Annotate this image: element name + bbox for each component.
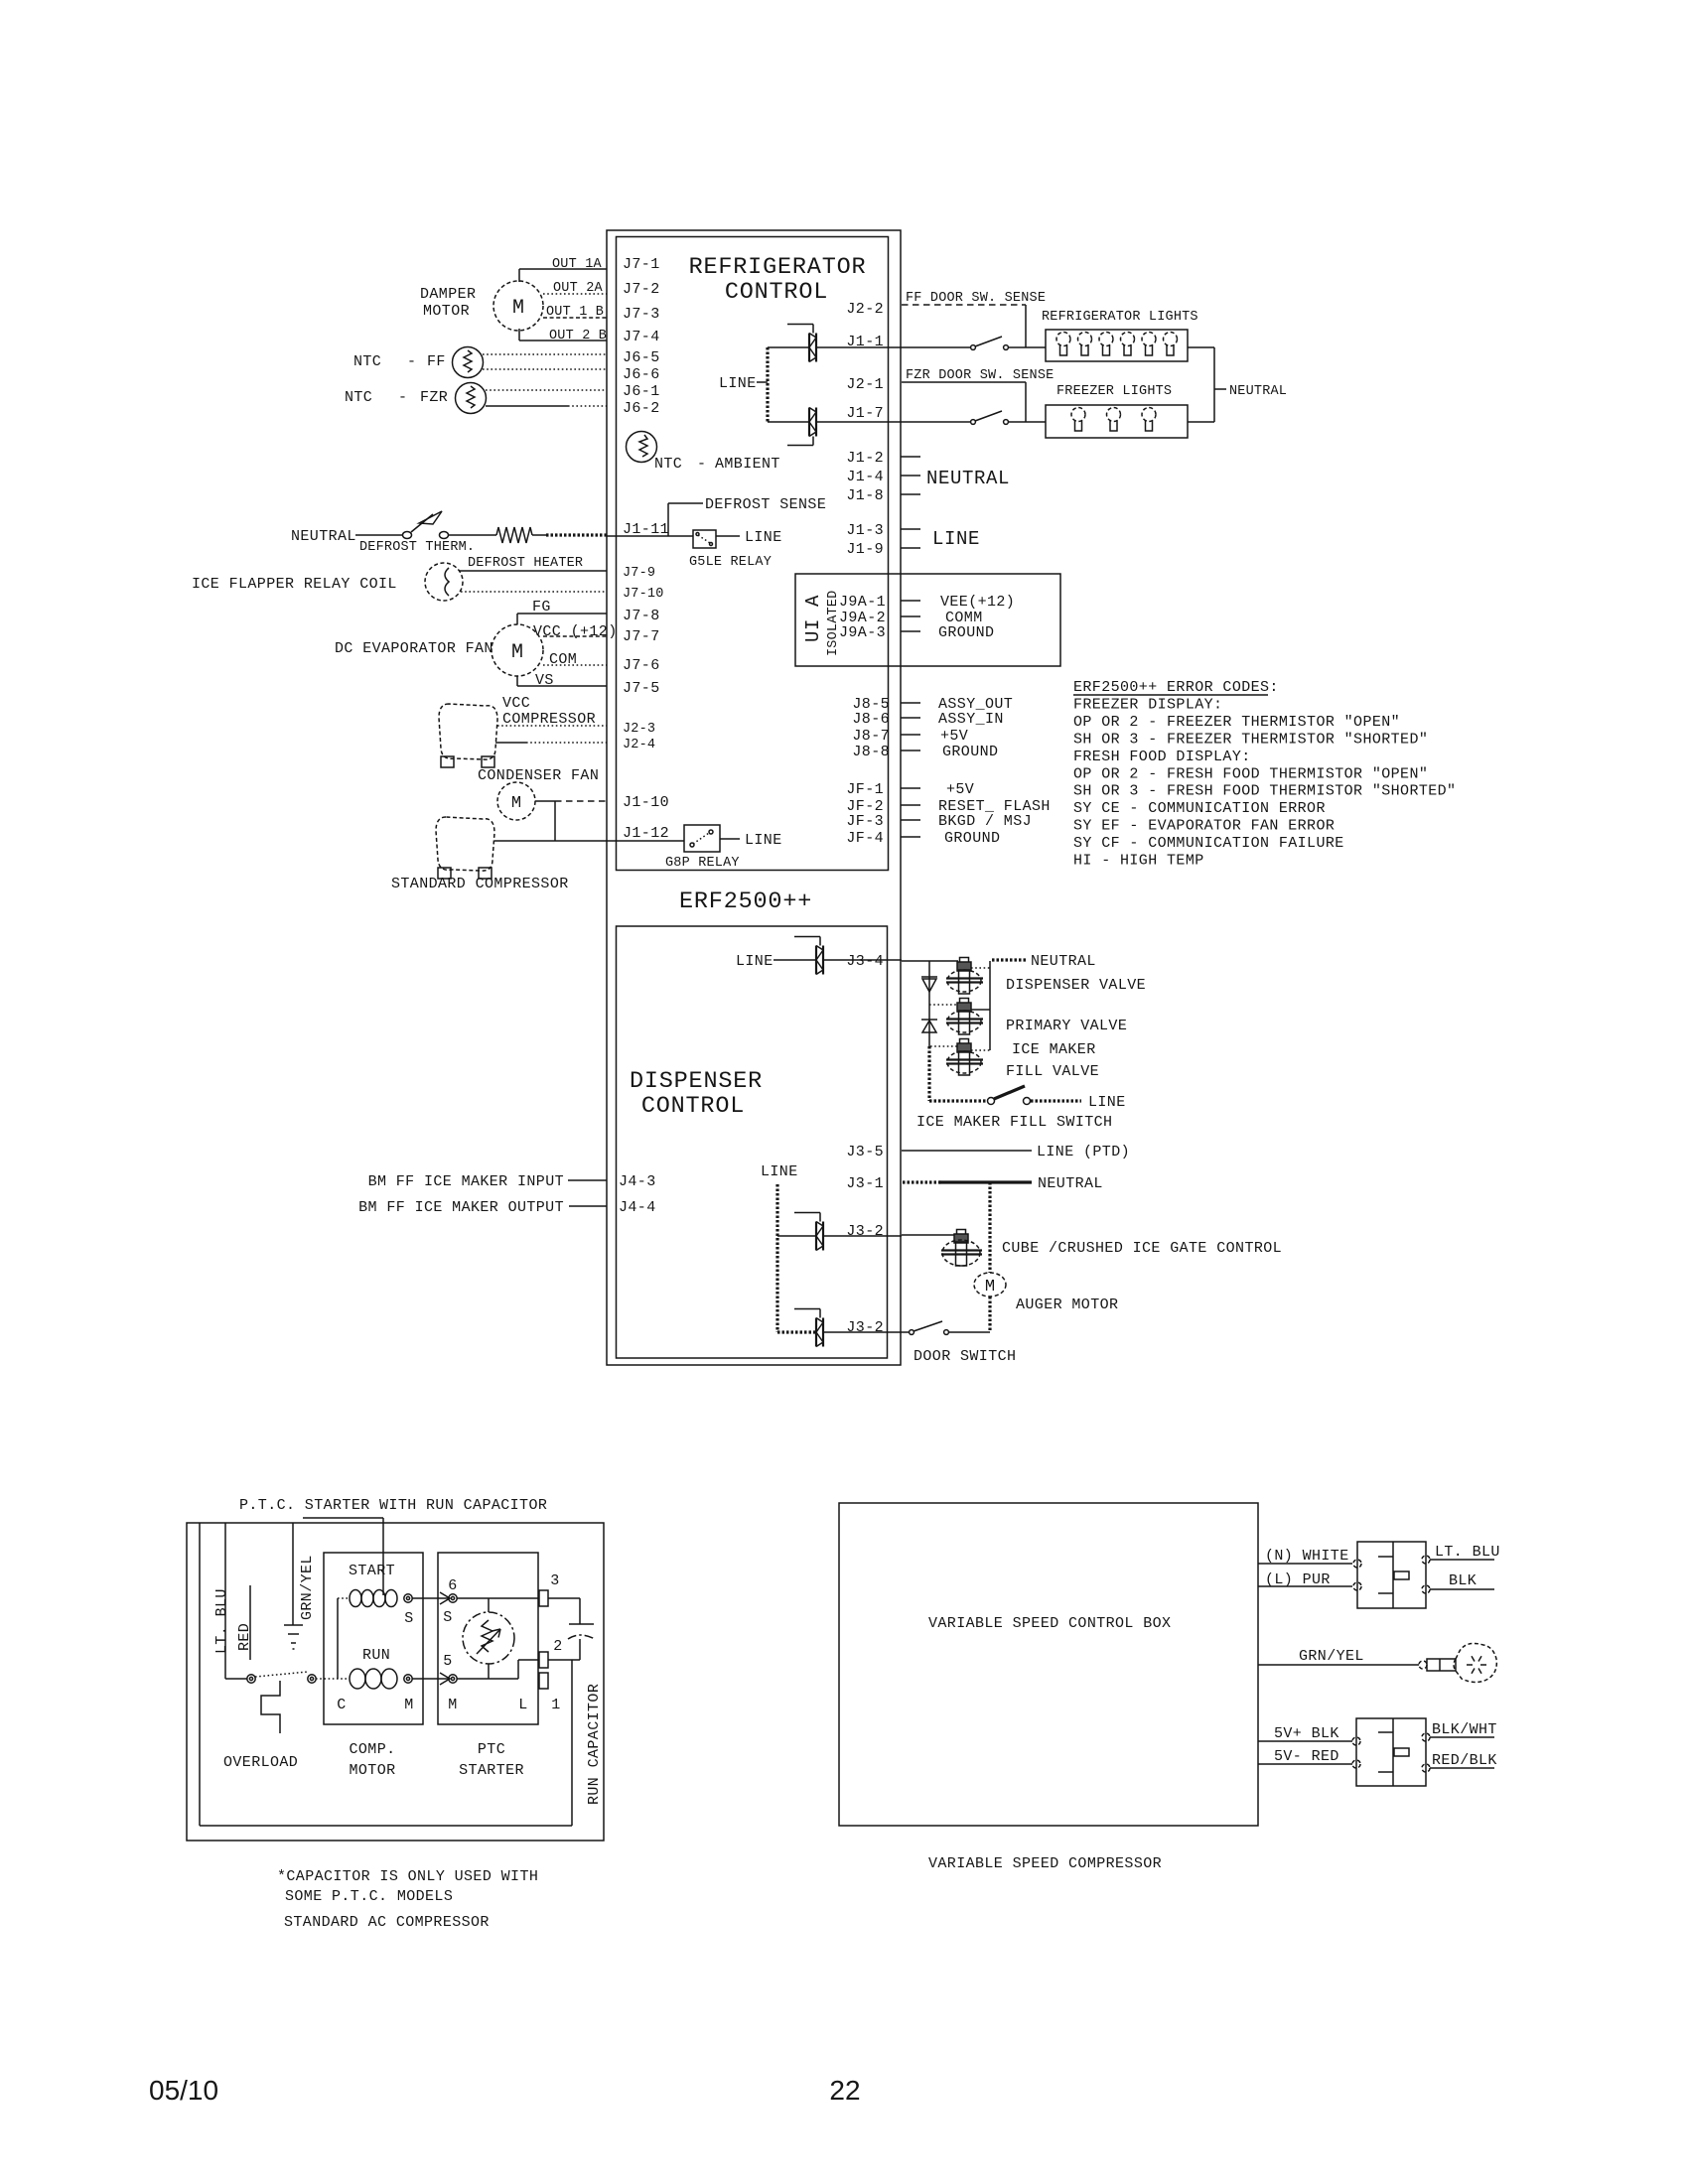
svg-text:NEUTRAL: NEUTRAL — [1031, 953, 1096, 970]
PTC thermistor — [463, 1612, 514, 1664]
svg-text:J7-5: J7-5 — [623, 680, 660, 697]
svg-text:G8P RELAY: G8P RELAY — [665, 856, 740, 871]
svg-text:FREEZER LIGHTS: FREEZER LIGHTS — [1056, 384, 1172, 399]
svg-text:LINE: LINE — [736, 953, 774, 970]
svg-text:J7-8: J7-8 — [623, 608, 660, 624]
svg-text:NEUTRAL: NEUTRAL — [926, 468, 1010, 489]
svg-text:RED/BLK: RED/BLK — [1432, 1752, 1497, 1769]
svg-text:P.T.C. STARTER WITH RUN CAPACI: P.T.C. STARTER WITH RUN CAPACITOR — [239, 1497, 547, 1514]
svg-text:J1-2: J1-2 — [846, 450, 884, 467]
svg-text:LINE: LINE — [1088, 1094, 1126, 1111]
svg-text:MOTOR: MOTOR — [349, 1762, 395, 1779]
svg-text:NTC: NTC — [345, 389, 372, 406]
svg-text:DISPENSER VALVE: DISPENSER VALVE — [1006, 977, 1146, 994]
wire J6-1 — [486, 389, 607, 391]
svg-text:J1-4: J1-4 — [846, 469, 884, 485]
svg-text:J2-4: J2-4 — [623, 738, 655, 752]
svg-text:+5V: +5V — [940, 728, 968, 745]
svg-text:BM FF ICE MAKER OUTPUT: BM FF ICE MAKER OUTPUT — [358, 1199, 564, 1216]
svg-text:HI - HIGH TEMP: HI - HIGH TEMP — [1073, 853, 1204, 870]
thermistor NTC-AMBIENT — [627, 432, 657, 463]
svg-text:3: 3 — [550, 1572, 559, 1589]
triac at J1-7 — [808, 408, 810, 437]
svg-text:J8-8: J8-8 — [852, 744, 890, 760]
svg-text:J7-6: J7-6 — [623, 657, 660, 674]
wire start winding feed — [303, 1517, 383, 1519]
LINE bus (thick dotted) in dispenser control — [775, 1184, 778, 1332]
svg-text:JF-4: JF-4 — [846, 830, 884, 847]
svg-text:DAMPER: DAMPER — [420, 286, 476, 303]
wire to defrost thermostat — [355, 534, 403, 536]
wire J3-2 out — [823, 1235, 902, 1237]
svg-text:J3-2: J3-2 — [846, 1319, 884, 1336]
svg-text:J1-10: J1-10 — [623, 794, 669, 811]
svg-text:DEFROST THERM.: DEFROST THERM. — [359, 540, 475, 555]
triac at J3-4 — [815, 946, 817, 975]
svg-text:SY CF - COMMUNICATION FAILURE: SY CF - COMMUNICATION FAILURE — [1073, 835, 1344, 852]
wire J3-1 NEUTRAL (thick) — [903, 1180, 941, 1183]
svg-text:22: 22 — [829, 2075, 860, 2106]
svg-text:6: 6 — [448, 1577, 457, 1594]
wire LT. BLU — [224, 1523, 226, 1679]
door switch — [910, 1330, 914, 1335]
wire to first J3-2 triac — [777, 1235, 816, 1237]
svg-text:J7-4: J7-4 — [623, 329, 660, 345]
svg-text:S: S — [404, 1610, 413, 1627]
wire S to PTC 6 — [412, 1597, 449, 1599]
wire J1-10 dashed — [555, 800, 607, 802]
wire RED — [249, 1585, 251, 1660]
relay G5LE — [693, 530, 716, 548]
svg-text:M: M — [511, 641, 523, 664]
svg-text:J3-5: J3-5 — [846, 1144, 884, 1160]
svg-text:LINE: LINE — [745, 529, 782, 546]
svg-text:-: - — [398, 389, 407, 406]
compressor motor box — [324, 1553, 423, 1724]
wire tab3 to run capacitor — [548, 1597, 580, 1599]
svg-text:START: START — [349, 1563, 395, 1579]
svg-text:GROUND: GROUND — [938, 624, 994, 641]
wire M to PTC 5 — [412, 1678, 449, 1680]
svg-text:SOME P.T.C. MODELS: SOME P.T.C. MODELS — [285, 1888, 453, 1905]
wire J1-1 out — [816, 346, 902, 348]
dispenser valve — [960, 958, 969, 963]
wire capacitor return loop — [571, 1660, 573, 1826]
svg-text:LINE: LINE — [761, 1163, 798, 1180]
FF door switch — [971, 345, 976, 350]
svg-text:ERF2500++ ERROR CODES:: ERF2500++ ERROR CODES: — [1073, 679, 1279, 696]
svg-text:J7-10: J7-10 — [623, 587, 664, 602]
wire condenser fan to junction — [535, 800, 555, 802]
svg-text:LT. BLU: LT. BLU — [1435, 1544, 1500, 1561]
svg-text:ICE MAKER FILL SWITCH: ICE MAKER FILL SWITCH — [916, 1114, 1112, 1131]
svg-text:FRESH FOOD DISPLAY:: FRESH FOOD DISPLAY: — [1073, 749, 1251, 765]
wire switch to refrigerator lights — [902, 346, 971, 348]
svg-text:JF-3: JF-3 — [846, 813, 884, 830]
wire to defrost heater — [448, 534, 496, 536]
svg-text:VARIABLE SPEED COMPRESSOR: VARIABLE SPEED COMPRESSOR — [928, 1855, 1162, 1872]
wire J7-10 — [461, 591, 607, 593]
refrigerator control box — [617, 237, 889, 871]
svg-text:J1-8: J1-8 — [846, 487, 884, 504]
defrost heater element — [496, 527, 532, 543]
ground symbol — [284, 1624, 303, 1626]
svg-text:FILL VALVE: FILL VALVE — [1006, 1063, 1099, 1080]
svg-text:*CAPACITOR IS ONLY USED WITH: *CAPACITOR IS ONLY USED WITH — [277, 1868, 538, 1885]
svg-text:OP OR 2 - FREEZER THERMISTOR ": OP OR 2 - FREEZER THERMISTOR "OPEN" — [1073, 714, 1400, 731]
svg-text:J6-1: J6-1 — [623, 383, 660, 400]
svg-text:C: C — [337, 1697, 346, 1713]
svg-text:-: - — [697, 456, 706, 473]
svg-text:G5LE RELAY: G5LE RELAY — [689, 555, 772, 570]
terminal tab 1 — [539, 1673, 548, 1689]
svg-text:J3-2: J3-2 — [846, 1223, 884, 1240]
wire tab2 to capacitor — [548, 1659, 580, 1661]
svg-text:FF: FF — [427, 353, 446, 370]
svg-text:J1-12: J1-12 — [623, 825, 669, 842]
svg-text:J2-1: J2-1 — [846, 376, 884, 393]
svg-text:2: 2 — [553, 1638, 562, 1655]
wire GRN/YEL — [292, 1523, 294, 1625]
svg-text:STANDARD AC COMPRESSOR: STANDARD AC COMPRESSOR — [284, 1914, 490, 1931]
svg-text:J2-2: J2-2 — [846, 301, 884, 318]
relay G8P — [684, 825, 720, 852]
svg-text:FREEZER DISPLAY:: FREEZER DISPLAY: — [1073, 696, 1222, 713]
wire J1-12 — [494, 840, 607, 842]
cube/crushed ice gate valve — [957, 1230, 966, 1235]
svg-text:J8-6: J8-6 — [852, 711, 890, 728]
svg-text:NEUTRAL: NEUTRAL — [1229, 384, 1287, 399]
svg-text:05/10: 05/10 — [149, 2075, 218, 2106]
svg-text:STANDARD COMPRESSOR: STANDARD COMPRESSOR — [391, 876, 569, 892]
primary valve — [960, 999, 969, 1004]
svg-text:SH OR 3 - FRESH FOOD THERMISTO: SH OR 3 - FRESH FOOD THERMISTOR "SHORTED… — [1073, 783, 1456, 800]
svg-text:J7-1: J7-1 — [623, 256, 660, 273]
svg-text:PTC: PTC — [478, 1741, 505, 1758]
svg-text:SY EF - EVAPORATOR FAN ERROR: SY EF - EVAPORATOR FAN ERROR — [1073, 818, 1335, 835]
svg-text:CONTROL: CONTROL — [725, 279, 828, 306]
wire lights to neutral — [1188, 346, 1214, 348]
svg-text:ERF2500++: ERF2500++ — [679, 888, 812, 915]
wire J3-4 out — [823, 959, 902, 961]
svg-text:PRIMARY VALVE: PRIMARY VALVE — [1006, 1018, 1127, 1034]
svg-text:M: M — [511, 794, 521, 813]
svg-text:NTC: NTC — [353, 353, 381, 370]
wire LINE at G5LE — [716, 535, 740, 537]
svg-text:BLK: BLK — [1449, 1572, 1477, 1589]
svg-text:NTC: NTC — [654, 456, 682, 473]
svg-text:LT. BLU: LT. BLU — [213, 1588, 230, 1654]
svg-text:-: - — [407, 353, 416, 370]
svg-text:RUN CAPACITOR: RUN CAPACITOR — [586, 1684, 603, 1805]
svg-text:1: 1 — [551, 1697, 560, 1713]
wire J6-6 — [483, 368, 607, 370]
svg-text:STARTER: STARTER — [459, 1762, 524, 1779]
svg-text:5V- RED: 5V- RED — [1274, 1748, 1339, 1765]
svg-text:J7-9: J7-9 — [623, 566, 655, 581]
svg-text:CONDENSER FAN: CONDENSER FAN — [478, 767, 599, 784]
svg-text:FZR DOOR SW. SENSE: FZR DOOR SW. SENSE — [906, 368, 1054, 383]
svg-text:RED: RED — [236, 1623, 253, 1651]
PTC starter box — [438, 1553, 538, 1724]
svg-text:DEFROST HEATER: DEFROST HEATER — [468, 556, 583, 571]
svg-text:DISPENSER: DISPENSER — [630, 1068, 763, 1095]
svg-text:J9A-1: J9A-1 — [839, 594, 886, 611]
svg-text:5V+ BLK: 5V+ BLK — [1274, 1725, 1339, 1742]
wire 5 to L — [457, 1678, 518, 1680]
svg-text:AMBIENT: AMBIENT — [715, 456, 780, 473]
wire to dispenser valve — [902, 960, 958, 962]
variable speed control box — [839, 1503, 1258, 1826]
overload element — [261, 1681, 280, 1733]
svg-text:LINE: LINE — [719, 375, 757, 392]
svg-text:(N) WHITE: (N) WHITE — [1265, 1548, 1349, 1565]
svg-text:S: S — [443, 1609, 452, 1626]
wire J1-11 — [607, 535, 693, 537]
svg-text:J6-6: J6-6 — [623, 366, 660, 383]
diode 2 — [921, 1019, 937, 1021]
ground lug — [1419, 1661, 1427, 1669]
defrost thermostat switch — [403, 532, 412, 539]
wire to ice maker fill switch (thick) — [927, 1046, 930, 1101]
svg-text:NEUTRAL: NEUTRAL — [291, 528, 356, 545]
run capacitor — [569, 1623, 594, 1625]
svg-text:DEFROST SENSE: DEFROST SENSE — [705, 496, 826, 513]
outer enclosure box — [607, 230, 901, 1365]
auger motor M — [974, 1273, 1006, 1297]
wire valve neutral bus — [989, 961, 991, 1050]
svg-text:LINE (PTD): LINE (PTD) — [1037, 1144, 1130, 1160]
svg-text:GRN/YEL: GRN/YEL — [299, 1555, 316, 1620]
terminal tab 3 — [539, 1590, 548, 1606]
wire switch to freezer lights — [902, 421, 971, 423]
svg-text:M: M — [512, 297, 524, 320]
svg-text:DC EVAPORATOR FAN: DC EVAPORATOR FAN — [335, 640, 493, 657]
connector 1 — [1357, 1542, 1426, 1608]
svg-text:J1-9: J1-9 — [846, 541, 884, 558]
FZR door switch — [971, 420, 976, 425]
svg-text:J6-5: J6-5 — [623, 349, 660, 366]
wire neutral drop to auger motor (thick) — [988, 1182, 991, 1273]
wire LINE (PTD) — [902, 1150, 1032, 1152]
wire 6 to terminal 3 — [457, 1597, 539, 1599]
svg-text:SY CE - COMMUNICATION ERROR: SY CE - COMMUNICATION ERROR — [1073, 800, 1326, 817]
svg-text:+5V: +5V — [946, 781, 974, 798]
wire left vertical 1 — [199, 1523, 201, 1826]
diode 1 — [928, 961, 930, 1046]
svg-text:CONTROL: CONTROL — [641, 1093, 745, 1120]
wire J6-5 — [483, 353, 607, 355]
standard compressor — [436, 817, 494, 871]
svg-text:J7-3: J7-3 — [623, 306, 660, 323]
wire LINE at G8P — [720, 838, 740, 840]
svg-text:REFRIGERATOR: REFRIGERATOR — [689, 254, 867, 281]
svg-text:VEE(+12): VEE(+12) — [940, 594, 1015, 611]
triac at J1-1 — [808, 334, 810, 362]
svg-text:OVERLOAD: OVERLOAD — [223, 1754, 298, 1771]
svg-text:J7-2: J7-2 — [623, 281, 660, 298]
svg-text:J9A-3: J9A-3 — [839, 624, 886, 641]
svg-text:VARIABLE SPEED CONTROL BOX: VARIABLE SPEED CONTROL BOX — [928, 1615, 1171, 1632]
wire J2-4 — [495, 742, 526, 744]
wire J1-12 to G8P relay — [607, 840, 684, 842]
connector 2 — [1356, 1718, 1426, 1786]
wire to triac J1-1 — [768, 346, 809, 348]
svg-text:BKGD / MSJ: BKGD / MSJ — [938, 813, 1032, 830]
UI A isolated box — [795, 574, 1060, 666]
svg-text:J7-7: J7-7 — [623, 628, 660, 645]
svg-text:FZR: FZR — [420, 389, 448, 406]
wire to cube/crushed valve — [902, 1234, 955, 1236]
svg-text:5: 5 — [443, 1653, 452, 1670]
svg-text:J8-7: J8-7 — [852, 728, 890, 745]
svg-text:MOTOR: MOTOR — [423, 303, 470, 320]
svg-text:ASSY_IN: ASSY_IN — [938, 711, 1004, 728]
svg-text:RUN: RUN — [362, 1647, 390, 1664]
dispenser control box — [617, 926, 888, 1358]
svg-text:GROUND: GROUND — [944, 830, 1000, 847]
svg-text:M: M — [448, 1697, 457, 1713]
svg-text:LINE: LINE — [745, 832, 782, 849]
terminal S motor — [404, 1594, 412, 1602]
terminal 6 — [449, 1594, 457, 1602]
svg-text:NEUTRAL: NEUTRAL — [1038, 1175, 1103, 1192]
wire J2-3 — [497, 725, 607, 727]
svg-text:BM FF ICE MAKER INPUT: BM FF ICE MAKER INPUT — [368, 1173, 564, 1190]
svg-text:REFRIGERATOR LIGHTS: REFRIGERATOR LIGHTS — [1042, 310, 1198, 325]
svg-text:J4-3: J4-3 — [619, 1173, 656, 1190]
svg-text:JF-1: JF-1 — [846, 781, 884, 798]
svg-text:J4-4: J4-4 — [619, 1199, 656, 1216]
terminal M motor — [404, 1675, 412, 1683]
svg-text:ICE MAKER: ICE MAKER — [1012, 1041, 1096, 1058]
svg-text:COMP.: COMP. — [349, 1741, 395, 1758]
svg-text:CUBE /CRUSHED ICE GATE CONTROL: CUBE /CRUSHED ICE GATE CONTROL — [1002, 1240, 1282, 1257]
svg-text:VCC: VCC — [502, 695, 530, 712]
triac at J3-2 (auger) — [815, 1318, 817, 1347]
wire J7-9 — [459, 570, 607, 572]
svg-text:GROUND: GROUND — [942, 744, 998, 760]
svg-text:SH OR 3 - FREEZER THERMISTOR ": SH OR 3 - FREEZER THERMISTOR "SHORTED" — [1073, 731, 1428, 748]
svg-text:J6-2: J6-2 — [623, 400, 660, 417]
svg-text:AUGER MOTOR: AUGER MOTOR — [1016, 1297, 1118, 1313]
overload contacts — [225, 1678, 247, 1680]
wire to second J3-2 triac (thick) — [777, 1330, 816, 1333]
PTC panel outer box — [187, 1523, 604, 1841]
svg-text:VCC (+12): VCC (+12) — [533, 623, 618, 640]
svg-text:LINE: LINE — [932, 528, 980, 550]
svg-text:OUT 1 B: OUT 1 B — [546, 305, 604, 320]
svg-text:J3-4: J3-4 — [846, 953, 884, 970]
svg-text:J1-3: J1-3 — [846, 522, 884, 539]
svg-text:J1-7: J1-7 — [846, 405, 884, 422]
svg-text:UI A: UI A — [802, 595, 824, 642]
wire J3-2 auger out — [823, 1331, 910, 1333]
svg-text:J3-1: J3-1 — [846, 1175, 884, 1192]
wire J6-2 — [486, 405, 568, 407]
triac at J3-2 (ice gate) — [815, 1222, 817, 1251]
ice maker fill valve — [960, 1039, 969, 1044]
terminal tab 2 — [539, 1652, 548, 1668]
svg-text:GRN/YEL: GRN/YEL — [1299, 1648, 1364, 1665]
terminal 5 — [449, 1675, 457, 1683]
svg-text:OP OR 2 - FRESH FOOD THERMISTO: OP OR 2 - FRESH FOOD THERMISTOR "OPEN" — [1073, 765, 1428, 782]
svg-text:L: L — [518, 1697, 527, 1713]
svg-text:ICE FLAPPER RELAY COIL: ICE FLAPPER RELAY COIL — [192, 576, 397, 593]
svg-text:M: M — [404, 1697, 413, 1713]
svg-text:M: M — [985, 1278, 995, 1297]
svg-text:DOOR SWITCH: DOOR SWITCH — [914, 1348, 1016, 1365]
svg-text:FF DOOR SW. SENSE: FF DOOR SW. SENSE — [906, 291, 1046, 306]
wire defrost heater to J1-11 (thick) — [532, 534, 546, 536]
svg-text:J2-3: J2-3 — [623, 722, 655, 737]
ice maker fill switch — [988, 1098, 995, 1105]
wire to triac J1-7 — [768, 421, 809, 423]
svg-text:BLK/WHT: BLK/WHT — [1432, 1721, 1497, 1738]
wire J1-7 out — [816, 421, 902, 423]
